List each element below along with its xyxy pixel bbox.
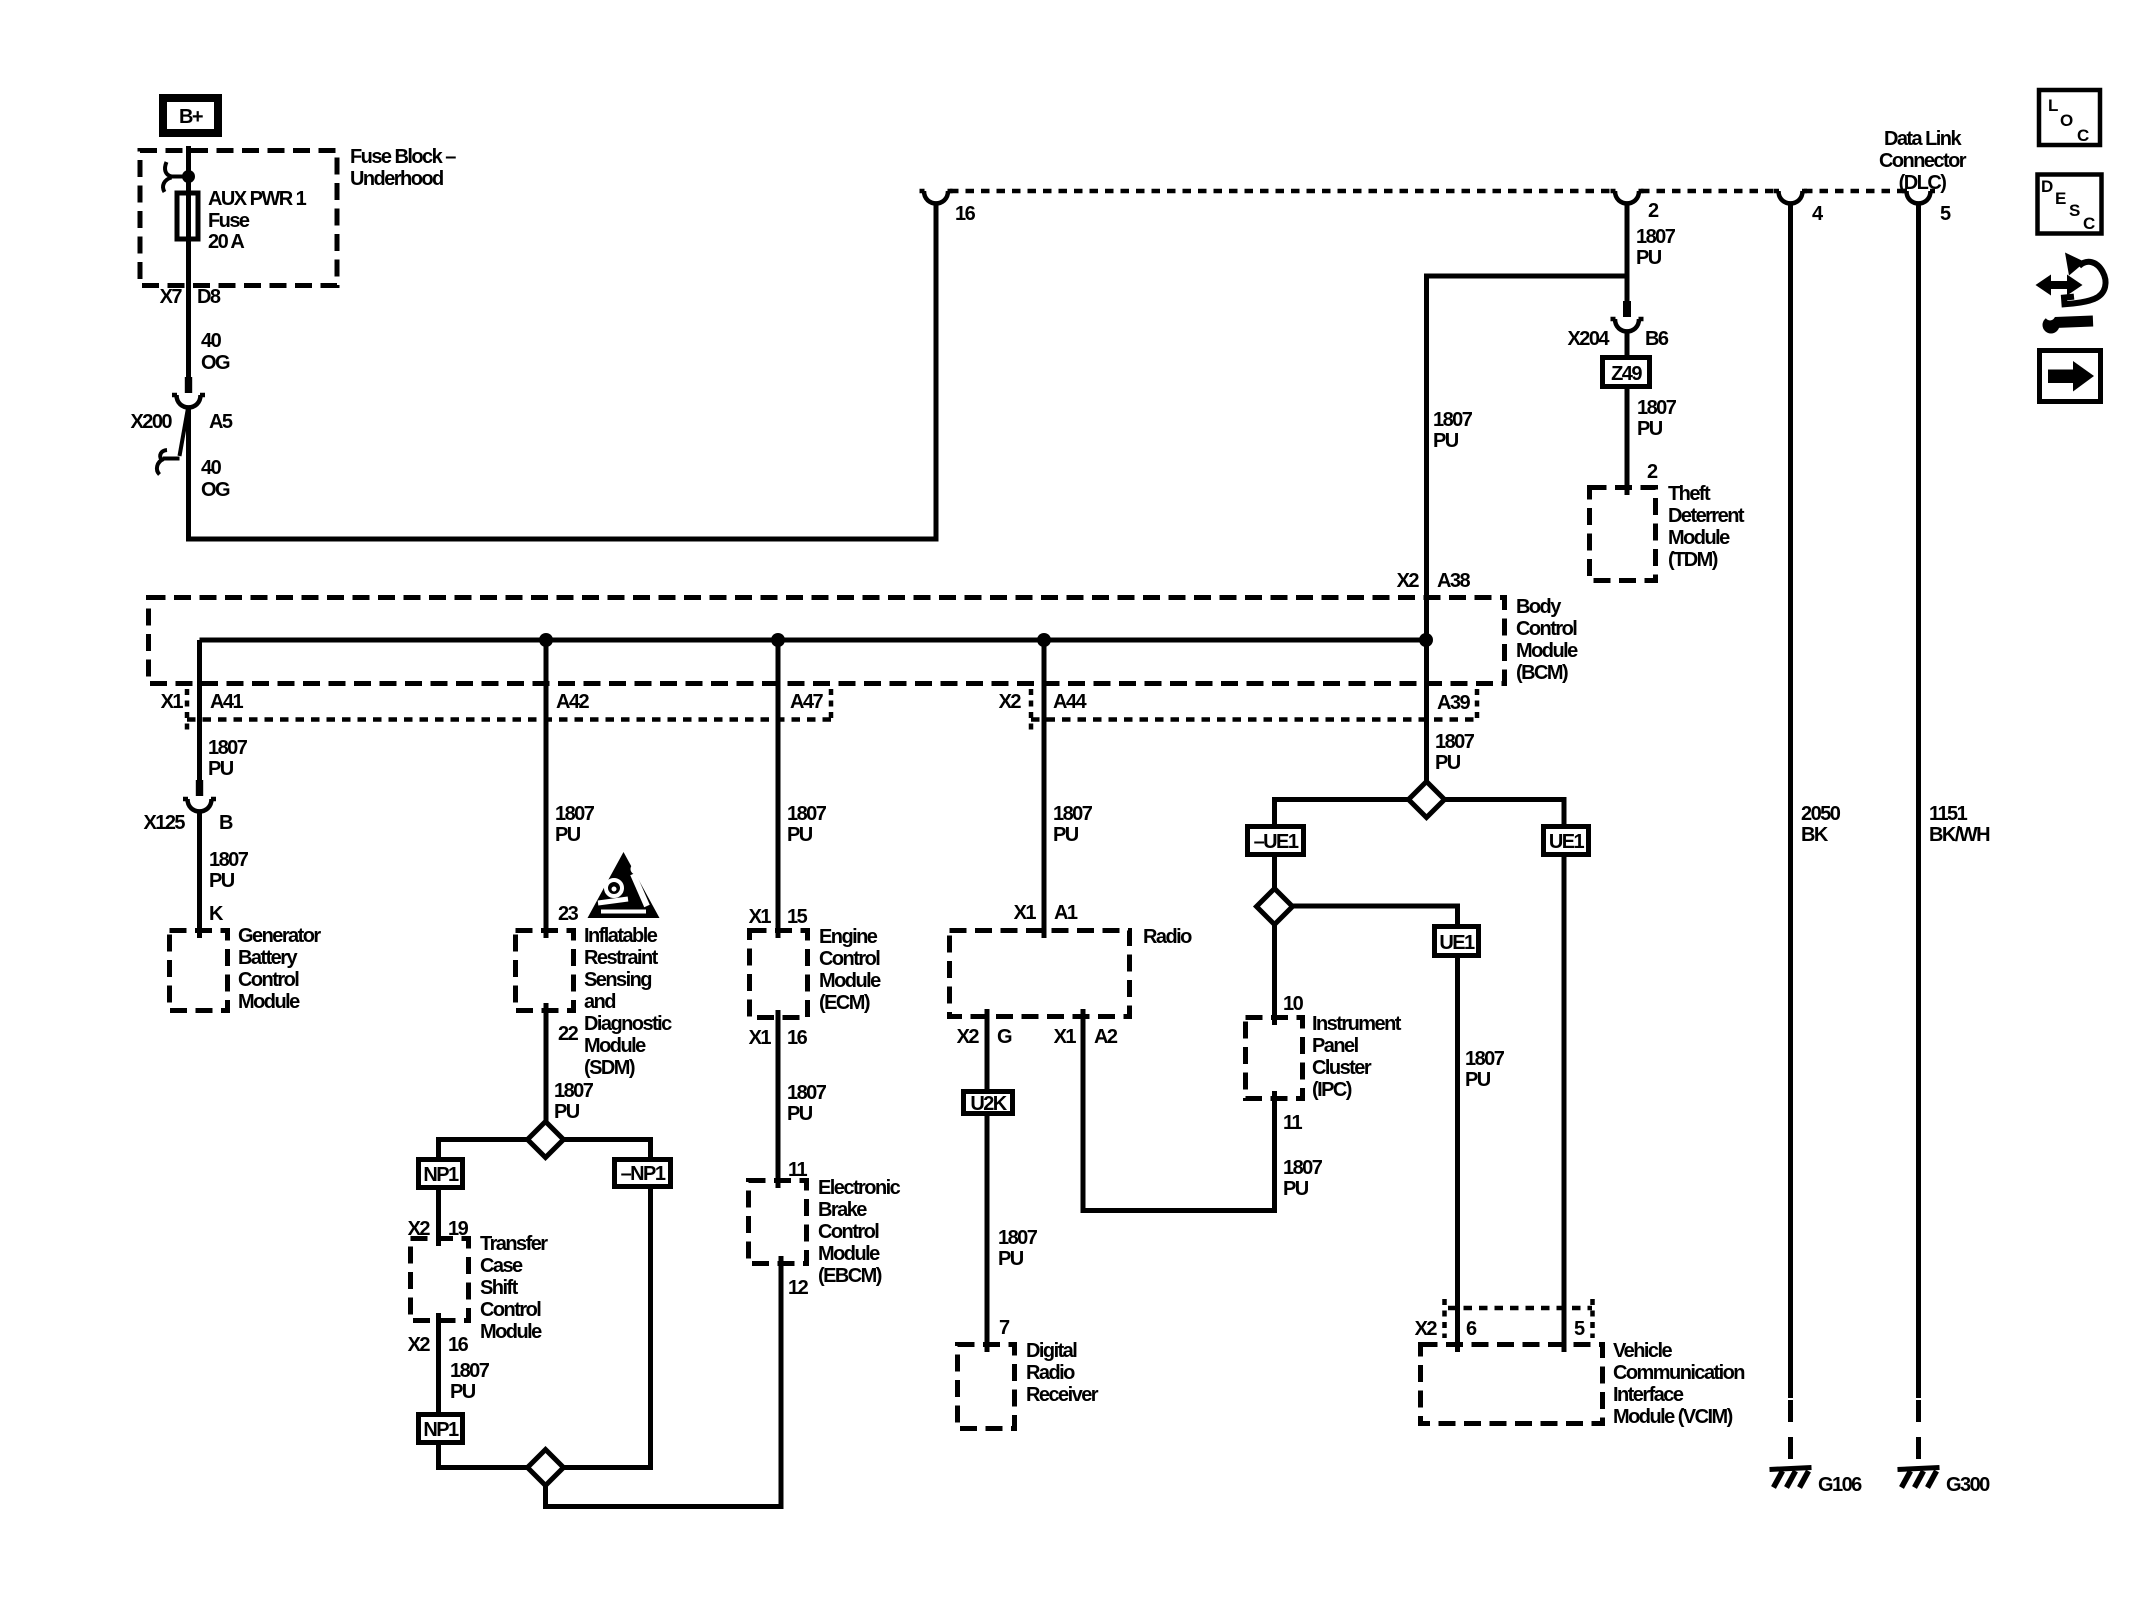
svg-text:A39: A39 [1437,692,1470,714]
wire: splice down to IPC pin 10 [1272,924,1277,1025]
svg-text:1807: 1807 [555,803,595,825]
svg-text:O: O [2060,111,2073,130]
digital radio receiver box [958,1340,1099,1429]
pin labels X2 6 5 [1415,1318,1585,1340]
svg-text:1807: 1807 [1465,1048,1505,1070]
wire: DLC pin 5 to ground G300 [1916,205,1921,1398]
splice diamond [528,1122,564,1158]
svg-text:1807: 1807 [209,849,249,871]
electronic brake control module (EBCM) box [749,1177,901,1287]
svg-text:NP1: NP1 [423,1164,459,1186]
wire: X200 down, across, up to DLC pin 16 [189,205,937,539]
power symbol B+ [163,98,218,133]
wire label 1807 PU [1433,409,1473,452]
svg-text:PU: PU [998,1248,1024,1270]
pin labels X1 16 [749,1027,808,1049]
net label U2K [964,1092,1013,1116]
svg-text:5: 5 [1574,1318,1585,1340]
icon: DESC legend box [2038,175,2102,234]
wire: ECM pin 16 to EBCM pin 11 [776,1010,781,1188]
wire label 1807 PU [1637,397,1677,440]
generator battery control module box [170,925,322,1013]
svg-text:PU: PU [1283,1178,1309,1200]
svg-text:–NP1: –NP1 [621,1163,666,1185]
wire: transfer case to lower splice [439,1313,528,1468]
pin labels X2 16 [408,1334,469,1356]
DLC dashed bus line [950,189,1613,194]
svg-text:1151: 1151 [1929,803,1968,825]
svg-text:(IPC): (IPC) [1312,1079,1352,1101]
net label -NP1 [615,1160,671,1187]
svg-text:PU: PU [1465,1069,1491,1091]
svg-text:PU: PU [555,824,581,846]
svg-text:(SDM): (SDM) [584,1057,635,1079]
dashed lead to G300 [1916,1400,1921,1464]
fuse block underhood box [140,151,337,286]
svg-text:G: G [997,1026,1012,1048]
svg-text:Receiver: Receiver [1026,1384,1099,1406]
svg-text:X1: X1 [161,691,184,713]
pin labels X2 G [957,1026,1012,1048]
DLC pin 5 connector [1902,191,1951,225]
svg-text:X2: X2 [1397,570,1420,592]
svg-text:2050: 2050 [1801,803,1841,825]
svg-text:1807: 1807 [1637,397,1677,419]
net label NP1 [419,1160,463,1188]
svg-text:D: D [2041,177,2053,196]
BCM X1 connector strip [187,689,831,732]
ground G300 [1898,1468,1991,1497]
svg-text:L: L [2048,96,2058,115]
svg-text:X1: X1 [749,906,772,928]
wire: SDM pin 22 to splice [544,1003,549,1122]
svg-text:Transfer: Transfer [480,1233,548,1255]
net label UE1 [1544,827,1589,855]
connector X200 pin A5 [130,377,232,475]
svg-text:(EBCM): (EBCM) [818,1265,882,1287]
svg-text:UE1: UE1 [1549,831,1585,853]
wire label 1807 PU [1283,1157,1323,1200]
svg-text:Z49: Z49 [1611,363,1642,385]
svg-text:PU: PU [787,1103,813,1125]
dashed lead to G106 [1788,1400,1793,1464]
icon: data exchange arrow with wrench [2036,253,2106,334]
wire label 40 OG [201,457,230,501]
svg-text:A42: A42 [556,691,589,713]
svg-text:Radio: Radio [1026,1362,1075,1384]
svg-text:20 A: 20 A [208,231,244,253]
svg-text:(TDM): (TDM) [1668,549,1718,571]
svg-text:C: C [2083,214,2095,233]
wire label 1807 PU [208,737,248,780]
wire label 1807 PU [209,849,249,892]
pin labels X1 A2 [1054,1026,1118,1048]
pin labels X1 15 [749,906,808,928]
inline connector X204 pin B6 [1567,301,1668,350]
net label NP1 [419,1415,463,1443]
svg-text:X1: X1 [1054,1026,1077,1048]
svg-text:PU: PU [208,758,234,780]
inflatable restraint SDM box [516,925,673,1079]
radio box [950,926,1193,1017]
svg-text:A41: A41 [210,691,243,713]
svg-text:Control: Control [818,1221,879,1243]
svg-text:X2: X2 [999,691,1022,713]
svg-text:1807: 1807 [1636,226,1676,248]
svg-text:PU: PU [209,870,235,892]
svg-text:BK: BK [1801,824,1829,846]
splice pack Z49 [1603,358,1650,387]
svg-text:U2K: U2K [970,1093,1007,1115]
icon: forward arrow box [2040,351,2101,402]
svg-text:NP1: NP1 [423,1419,459,1441]
airbag warning triangle [588,852,660,918]
engine control module (ECM) box [750,926,882,1018]
svg-text:1807: 1807 [787,1082,827,1104]
svg-text:BK/WH: BK/WH [1929,824,1990,846]
svg-text:G106: G106 [1818,1474,1862,1496]
svg-text:Digital: Digital [1026,1340,1077,1362]
wire: splice to -NP1 and down to lower splice [564,1140,651,1468]
svg-text:G300: G300 [1946,1474,1990,1496]
wire label 1807 PU [1053,803,1093,846]
pin labels X1 A41 [161,691,244,713]
svg-text:7: 7 [999,1317,1010,1339]
svg-text:1807: 1807 [1433,409,1473,431]
svg-text:C: C [2077,126,2089,145]
body control module (BCM) box [149,596,1579,684]
svg-text:Battery: Battery [238,947,298,969]
splice diamond IPC [1257,889,1293,925]
VCIM X2 connector strip [1445,1299,1593,1338]
svg-text:Diagnostic: Diagnostic [584,1013,672,1035]
svg-text:X2: X2 [957,1026,980,1048]
svg-text:A2: A2 [1094,1026,1118,1048]
svg-text:Module: Module [1516,640,1578,662]
ground G106 [1770,1468,1863,1497]
svg-text:PU: PU [554,1101,580,1123]
svg-text:PU: PU [1433,430,1459,452]
wire: DLC pin 4 to ground G106 [1788,205,1793,1398]
wire label 40 OG [201,330,230,374]
svg-text:(ECM): (ECM) [819,992,870,1014]
svg-text:Module: Module [584,1035,646,1057]
svg-text:K: K [209,903,224,925]
pin labels X2 A44 [999,691,1088,713]
svg-text:40: 40 [201,330,222,352]
wire: BCM A42 to SDM pin 23 [544,640,549,938]
net label -UE1 [1248,827,1304,855]
svg-text:AUX PWR 1: AUX PWR 1 [208,188,307,210]
net label UE1 [1435,927,1479,956]
wire: lower splice to EBCM pin 12 [546,1256,782,1507]
svg-text:40: 40 [201,457,222,479]
junction A47 [771,633,785,647]
svg-text:PU: PU [1636,247,1662,269]
lower splice diamond [528,1450,564,1486]
svg-text:A47: A47 [790,691,823,713]
junction A44 [1037,633,1051,647]
svg-text:22: 22 [558,1023,579,1045]
svg-text:Module: Module [819,970,881,992]
label: Data Link Connector (DLC) [1879,128,1967,194]
svg-text:Case: Case [480,1255,523,1277]
svg-text:Module: Module [238,991,300,1013]
transfer case shift control module box [411,1233,549,1343]
wire: radio pin A2 to IPC pin 11 [1083,1009,1275,1211]
svg-text:Control: Control [238,969,299,991]
svg-text:1807: 1807 [787,803,827,825]
wire: splice to UE1 right and down to VCIM pin 5 [1445,800,1565,1353]
pin labels X1 A1 [1014,902,1078,924]
svg-text:5: 5 [1940,203,1951,225]
wire label 1807 PU [787,803,827,846]
svg-text:16: 16 [787,1027,808,1049]
BCM X2 connector strip [1031,689,1477,732]
svg-text:2: 2 [1647,461,1658,483]
svg-text:Engine: Engine [819,926,878,948]
svg-text:A1: A1 [1054,902,1078,924]
svg-text:PU: PU [1053,824,1079,846]
svg-text:A44: A44 [1053,691,1087,713]
svg-text:B+: B+ [179,106,203,128]
svg-text:1807: 1807 [554,1080,594,1102]
svg-text:Sensing: Sensing [584,969,651,991]
svg-text:1807: 1807 [998,1227,1038,1249]
svg-text:Connector: Connector [1879,150,1967,172]
svg-text:Instrument: Instrument [1312,1013,1402,1035]
svg-text:Control: Control [480,1299,541,1321]
svg-text:E: E [2055,189,2066,208]
svg-text:11: 11 [788,1159,807,1181]
wire: BCM A41 to X125 [197,640,202,780]
svg-text:1807: 1807 [1053,803,1093,825]
svg-text:Data Link: Data Link [1884,128,1962,150]
wire label 1151 BK/WH [1929,803,1990,846]
wire: DLC pin 2 down to X204 [1625,205,1630,301]
svg-text:OG: OG [201,352,230,374]
svg-text:PU: PU [787,824,813,846]
svg-text:UE1: UE1 [1439,932,1475,954]
wire label 1807 PU [554,1080,594,1123]
svg-text:X1: X1 [1014,902,1037,924]
svg-text:1807: 1807 [1435,731,1475,753]
wire: splice to UE1 middle and down to VCIM pin 6 [1293,906,1458,1352]
svg-text:B6: B6 [1645,328,1669,350]
vehicle communication interface module (VCIM) box [1421,1340,1745,1428]
icon: LOC legend box [2039,90,2100,145]
svg-text:OG: OG [201,479,230,501]
junction A42 [539,633,553,647]
wire label 1807 PU [450,1360,490,1403]
svg-text:PU: PU [450,1381,476,1403]
svg-text:Control: Control [819,948,880,970]
wire: BCM A39 splice [1435,731,1475,774]
svg-text:X7: X7 [160,286,183,308]
svg-text:Fuse: Fuse [208,210,250,232]
wire label 1807 PU [998,1227,1038,1270]
inline connector X125 pin B [143,780,233,834]
svg-text:Body: Body [1516,596,1562,618]
fuse AUX PWR 1 20A [177,188,307,253]
DLC pin 4 connector [1774,191,1824,225]
DLC pin 2 connector [1611,191,1660,222]
svg-text:2: 2 [1648,200,1659,222]
svg-text:Control: Control [1516,618,1577,640]
wire: radio pin G to digital radio receiver [985,1009,990,1352]
svg-text:X200: X200 [130,411,172,433]
svg-text:Inflatable: Inflatable [584,925,658,947]
svg-text:S: S [2069,201,2080,220]
svg-text:A5: A5 [209,411,233,433]
instrument panel cluster (IPC) box [1246,1013,1402,1101]
svg-text:X1: X1 [749,1027,772,1049]
svg-text:Module: Module [480,1321,542,1343]
svg-text:1807: 1807 [208,737,248,759]
wire: X204 to splice pack Z49 [1625,332,1630,495]
fuse clip terminal [163,162,195,192]
svg-text:B: B [219,812,233,834]
svg-text:6: 6 [1466,1318,1477,1340]
svg-text:15: 15 [787,906,808,928]
splice diamond A39 [1409,782,1445,818]
svg-text:PU: PU [1637,418,1663,440]
svg-text:A38: A38 [1437,570,1470,592]
wire: X125 to generator battery control module [197,812,202,938]
svg-text:11: 11 [1283,1112,1302,1134]
pin labels X7 D8 [160,286,221,308]
svg-text:Module: Module [1668,527,1730,549]
svg-text:Electronic: Electronic [818,1177,901,1199]
svg-text:16: 16 [955,203,976,225]
svg-text:1807: 1807 [1283,1157,1323,1179]
svg-text:Shift: Shift [480,1277,519,1299]
wire label 1807 PU [555,803,595,846]
svg-text:Fuse Block –: Fuse Block – [350,146,456,168]
svg-text:Generator: Generator [238,925,321,947]
wire label 1807 PU [1465,1048,1505,1091]
svg-text:Theft: Theft [1668,483,1711,505]
svg-text:PU: PU [1435,752,1461,774]
svg-text:Deterrent: Deterrent [1668,505,1745,527]
svg-text:1807: 1807 [450,1360,490,1382]
svg-text:D8: D8 [197,286,221,308]
label: Fuse Block - Underhood [350,146,456,190]
svg-text:Module (VCIM): Module (VCIM) [1613,1406,1733,1428]
svg-text:16: 16 [448,1334,469,1356]
wire: DLC pin 2 branch to BCM pin A38 [1427,276,1628,782]
wire label 2050 BK [1801,803,1841,846]
svg-text:Radio: Radio [1143,926,1192,948]
wire: splice to -UE1 [1275,800,1409,889]
pin labels X2 A38 [1397,570,1471,592]
svg-text:and: and [584,991,615,1013]
svg-text:–UE1: –UE1 [1254,831,1299,853]
svg-text:12: 12 [788,1277,809,1299]
wire: BCM A44 to radio pin A1 [1042,640,1047,938]
junction A39 [1419,633,1433,647]
wire label 1807 PU [1636,226,1676,269]
svg-text:(BCM): (BCM) [1516,662,1568,684]
svg-text:Module: Module [818,1243,880,1265]
svg-text:X204: X204 [1567,328,1610,350]
svg-text:Communication: Communication [1613,1362,1744,1384]
BCM internal bus wire [200,638,1427,643]
svg-text:Interface: Interface [1613,1384,1684,1406]
inline connector at DLC pin 16 [920,191,976,225]
svg-text:23: 23 [558,903,579,925]
svg-text:Vehicle: Vehicle [1613,1340,1673,1362]
wire: BCM A47 to ECM pin 15 [776,640,781,938]
wire: splice to NP1 left [439,1140,528,1247]
theft deterrent module (TDM) box [1590,483,1745,581]
svg-text:Brake: Brake [818,1199,867,1221]
wire: B+ through fuse to connector X200 [186,146,191,377]
svg-text:Cluster: Cluster [1312,1057,1372,1079]
svg-text:X2: X2 [1415,1318,1438,1340]
svg-text:X2: X2 [408,1334,431,1356]
pin labels X2 19 [408,1218,469,1240]
wire label 1807 PU [787,1082,827,1125]
svg-text:Underhood: Underhood [350,168,443,190]
svg-text:X125: X125 [143,812,185,834]
svg-text:Restraint: Restraint [584,947,659,969]
svg-text:Panel: Panel [1312,1035,1359,1057]
svg-text:10: 10 [1283,993,1304,1015]
